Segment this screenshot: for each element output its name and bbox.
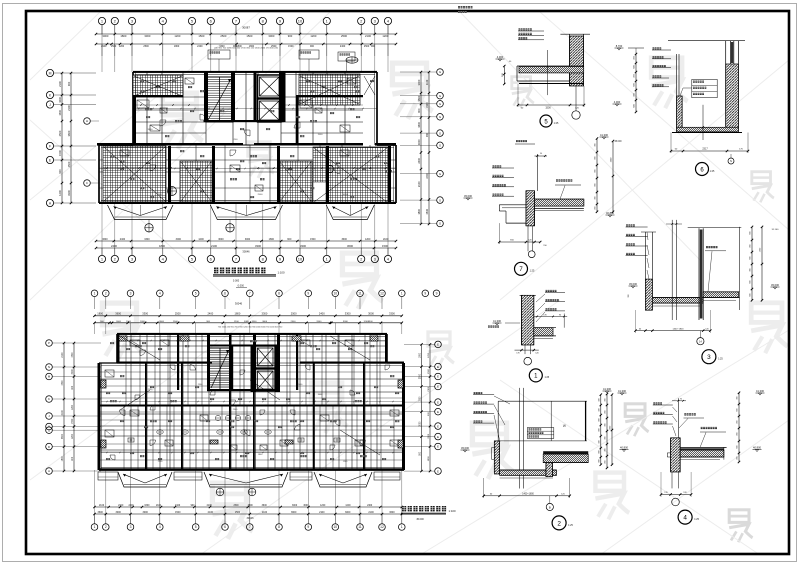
svg-text:1400~1800: 1400~1800: [672, 328, 684, 330]
bottom plan extra partitions: [123, 406, 125, 470]
bottom plan door arcs: [140, 350, 146, 356]
svg-text:300: 300: [598, 440, 600, 443]
top plan inner dim chains: [133, 108, 377, 110]
svg-text:3300: 3300: [345, 312, 351, 316]
svg-text:3600: 3600: [102, 238, 108, 241]
svg-text:2500: 2500: [175, 312, 181, 316]
roof vent: [346, 57, 358, 63]
svg-text:1800: 1800: [120, 34, 126, 38]
svg-text:E: E: [437, 365, 439, 369]
detail 6 annotation table: [692, 79, 717, 97]
svg-text:3000: 3000: [72, 368, 74, 374]
detail 3 bottom slab: [652, 298, 703, 304]
svg-text:5: 5: [195, 292, 197, 296]
bottom plan internal partitions horizontal: [117, 345, 387, 347]
top plan core poche: [254, 72, 257, 122]
detail 7 number circle: [515, 262, 528, 275]
svg-text:3600: 3600: [115, 312, 121, 316]
svg-text:240 900 700 2080 600 150 170: 240 900 700 2080 600 150 1700 350 120 15…: [214, 48, 279, 50]
bottom plan elevator shafts: [256, 346, 276, 368]
bottom plan left dim lines: [63, 343, 65, 471]
detail 7 level mark: [466, 198, 469, 200]
detail 2 bottom slab: [500, 470, 557, 475]
svg-text:31.100: 31.100: [772, 229, 779, 231]
svg-text:3600: 3600: [347, 244, 353, 248]
top plan stair core: [206, 77, 233, 122]
bottom plan window inner lines: [119, 335, 385, 337]
svg-text:1500: 1500: [288, 45, 294, 48]
svg-text:3600: 3600: [262, 321, 268, 323]
svg-text:10: 10: [298, 256, 303, 261]
svg-text:2400: 2400: [111, 244, 117, 248]
bottom plan dense labels: [106, 392, 108, 394]
svg-text:0.000: 0.000: [233, 280, 240, 283]
top plan door arcs: [160, 120, 166, 126]
svg-text:41.300: 41.300: [493, 319, 501, 323]
detail 5 group: [496, 28, 591, 127]
top plan internal partitions: [146, 72, 148, 145]
detail 5 vertical hatched wall: [570, 36, 584, 86]
svg-text:3000: 3000: [345, 511, 351, 514]
svg-text:3600: 3600: [97, 511, 103, 514]
svg-text:9: 9: [307, 292, 309, 296]
top plan dense labels: [140, 80, 142, 82]
svg-text:2100: 2100: [58, 81, 62, 87]
svg-text:7: 7: [249, 292, 251, 296]
detail 2 axis bubble: [546, 503, 553, 510]
top plan outer walls: [133, 71, 377, 73]
svg-text:3300: 3300: [389, 312, 395, 316]
svg-text:1400~1800: 1400~1800: [522, 494, 534, 496]
svg-text:2500: 2500: [233, 505, 239, 507]
detail 4 slab: [680, 446, 726, 448]
top plan right axis circles: [437, 69, 444, 76]
svg-text:40.800: 40.800: [606, 211, 614, 215]
top plan room labels: [145, 108, 147, 110]
top plan wall poche segments: [133, 95, 183, 97]
svg-text:4: 4: [683, 515, 687, 522]
svg-text:900: 900: [598, 459, 600, 462]
detail 6 bottom slab: [677, 127, 739, 132]
svg-text:30087: 30087: [242, 26, 250, 30]
svg-text:1:100: 1:100: [278, 271, 285, 275]
detail 7 slab leader: [556, 179, 558, 181]
svg-text:3000: 3000: [268, 34, 274, 38]
top plan left axis circles: [46, 69, 53, 76]
svg-text:E: E: [437, 385, 439, 389]
detail 4 pipe circle: [672, 498, 680, 506]
svg-text:1200: 1200: [320, 505, 326, 507]
svg-text:1200: 1200: [363, 321, 369, 323]
svg-text:2100: 2100: [262, 511, 268, 514]
detail 2 right dim col: [600, 395, 602, 465]
detail 6 window mullion: [729, 41, 731, 64]
svg-text:3300: 3300: [244, 321, 250, 323]
svg-text:2400: 2400: [367, 505, 373, 507]
detail 6 axis bubble: [728, 158, 734, 164]
svg-text:12: 12: [380, 525, 384, 529]
roof label boxes above plan: [208, 50, 230, 59]
svg-text:41.300: 41.300: [618, 389, 626, 393]
detail 7 right dim col: [596, 139, 598, 212]
svg-text:1200: 1200: [310, 34, 316, 38]
svg-text:3000: 3000: [417, 79, 421, 85]
svg-text:3000: 3000: [115, 511, 121, 514]
bottom plan room labels: [110, 400, 112, 402]
top plan drain symbols: [145, 224, 153, 232]
top plan center fixtures: [168, 187, 177, 196]
svg-text:45.000: 45.000: [464, 194, 472, 198]
svg-text:F: F: [49, 144, 51, 148]
svg-text:2500: 2500: [58, 130, 62, 136]
svg-text:9: 9: [424, 292, 426, 296]
svg-text:1500: 1500: [310, 238, 316, 241]
svg-text:10: 10: [298, 18, 303, 23]
svg-text:2500: 2500: [364, 45, 370, 48]
detail 1 vertical hatched wall: [522, 295, 534, 345]
svg-text:1200: 1200: [365, 238, 371, 241]
svg-text:40.800: 40.800: [620, 446, 628, 450]
svg-text:2400: 2400: [417, 157, 421, 163]
svg-text:2100: 2100: [118, 505, 124, 507]
bottom floor plan group: [46, 285, 456, 531]
svg-text:6: 6: [224, 292, 226, 296]
svg-text:2100: 2100: [211, 244, 217, 248]
svg-text:1500: 1500: [246, 34, 252, 38]
svg-text:4: 4: [159, 525, 161, 529]
bottom plan interior arrows: [120, 336, 160, 360]
svg-text:B: B: [549, 505, 551, 509]
svg-text:1:25: 1:25: [554, 122, 559, 125]
detail 2 level mark: [463, 450, 466, 452]
svg-text:2100: 2100: [365, 34, 371, 38]
svg-text:2: 2: [105, 525, 107, 529]
svg-text:2500: 2500: [341, 34, 347, 38]
detail 7 lower verticals: [527, 226, 529, 251]
svg-text:30046: 30046: [235, 302, 243, 306]
svg-text:2: 2: [557, 520, 561, 527]
svg-text:900: 900: [288, 34, 293, 38]
bottom plan bottom dim rows: [95, 506, 402, 508]
svg-text:3300: 3300: [262, 312, 268, 316]
detail 3 group: [626, 220, 780, 364]
svg-text:900: 900: [598, 428, 600, 431]
svg-text:3000: 3000: [417, 139, 421, 145]
svg-text:900: 900: [598, 418, 600, 421]
svg-text:1200: 1200: [233, 139, 239, 141]
detail 3 slab leader: [706, 246, 708, 248]
svg-text:1800: 1800: [97, 312, 103, 316]
svg-text:E: E: [437, 435, 439, 439]
svg-text:3300: 3300: [428, 433, 430, 439]
svg-text:3: 3: [130, 525, 132, 529]
top plan interior crosses: [104, 147, 165, 201]
svg-text:900: 900: [417, 108, 421, 113]
svg-text:2100: 2100: [156, 505, 162, 507]
svg-text:2500: 2500: [173, 321, 179, 323]
detail 4 group: [605, 389, 765, 524]
top plan extra labels: [140, 90, 142, 92]
svg-text:3000: 3000: [142, 511, 148, 514]
top plan axis circles top row: [98, 17, 105, 24]
svg-text:E: E: [437, 469, 439, 473]
detail 5 pipe circle: [572, 111, 580, 119]
svg-text:1200: 1200: [428, 352, 430, 358]
svg-text:3600: 3600: [291, 511, 297, 514]
svg-text:4: 4: [159, 292, 161, 296]
detail 4 central pipe: [677, 398, 679, 438]
svg-text:1:25: 1:25: [710, 170, 715, 173]
top plan left dim lines: [61, 73, 63, 203]
svg-text:E: E: [437, 445, 439, 449]
svg-text:3300: 3300: [142, 312, 148, 316]
svg-text:3000: 3000: [245, 238, 251, 241]
svg-text:8: 8: [278, 525, 280, 529]
bottom plan axis circles top row: [91, 290, 98, 297]
svg-text:3300: 3300: [252, 321, 258, 323]
detail 2 leader annotations left: [474, 392, 476, 394]
svg-text:H: H: [86, 119, 88, 123]
svg-text:1500: 1500: [62, 380, 64, 386]
detail 5 floor slab: [519, 67, 584, 73]
svg-text:8: 8: [278, 292, 280, 296]
svg-text:6: 6: [224, 525, 226, 529]
svg-text:3000: 3000: [292, 505, 298, 507]
detail 7 pipe circle: [528, 251, 535, 258]
bottom plan left axis circles: [46, 340, 53, 347]
svg-text:2500: 2500: [426, 208, 429, 214]
detail 6 number circle: [696, 163, 709, 176]
svg-text:3000: 3000: [303, 505, 309, 507]
svg-text:2400: 2400: [340, 45, 346, 48]
top floor plan group: [46, 17, 443, 282]
bottom plan axis guide lines: [94, 323, 96, 334]
svg-text:41.300: 41.300: [603, 387, 611, 391]
svg-text:K: K: [48, 397, 50, 401]
svg-text:3600: 3600: [389, 511, 395, 514]
svg-text:40.800: 40.800: [753, 446, 761, 450]
svg-text:3000: 3000: [116, 321, 122, 323]
svg-text:1200: 1200: [72, 404, 74, 410]
top plan interior dims: [133, 104, 206, 106]
svg-text:2100: 2100: [426, 79, 429, 85]
svg-text:41.300: 41.300: [756, 389, 764, 393]
svg-text:1200: 1200: [174, 34, 180, 38]
svg-text:N: N: [48, 365, 50, 369]
detail 7 group: [464, 133, 615, 275]
svg-text:300: 300: [598, 408, 600, 411]
detail 3 axis bubble: [697, 338, 704, 345]
misc top-right corner text: [458, 6, 460, 8]
svg-text:10: 10: [333, 525, 337, 529]
svg-text:2100: 2100: [175, 505, 181, 507]
bottom plan core poche: [251, 346, 254, 392]
top plan window inner lines: [135, 74, 375, 76]
svg-text:8.700: 8.700: [616, 44, 623, 48]
bottom plan drain symbols: [216, 488, 224, 496]
detail 6 center pipe: [702, 105, 704, 140]
svg-text:300: 300: [598, 398, 600, 401]
detail 3 leader annotations: [626, 224, 628, 226]
detail 2 bottom dim: [484, 495, 570, 497]
detail 3 left level marks: [631, 286, 634, 288]
svg-text:1:25: 1:25: [530, 270, 535, 273]
detail 6 bottom dim: [671, 150, 748, 152]
svg-text:3300: 3300: [368, 321, 374, 323]
svg-text:1:25: 1:25: [544, 376, 549, 379]
detail 4 left dim col: [606, 394, 608, 468]
svg-text:1200: 1200: [119, 45, 125, 48]
svg-text:3300: 3300: [255, 244, 261, 248]
svg-text:45.000: 45.000: [461, 446, 469, 450]
bottom plan mid fixtures row: [215, 415, 220, 420]
svg-text:90: 90: [680, 399, 682, 401]
detail 4 bottom dim: [661, 494, 691, 496]
svg-text:E: E: [437, 343, 439, 347]
svg-text:2317: 2317: [702, 148, 708, 151]
svg-text:2500: 2500: [291, 312, 297, 316]
detail 7 left parapet: [499, 204, 526, 206]
detail 6 right hatched wall: [726, 64, 739, 127]
detail 2 right floor slab: [543, 452, 588, 455]
svg-text:1:25: 1:25: [694, 518, 699, 521]
top plan balconies below: [108, 205, 174, 220]
svg-text:E: E: [437, 424, 439, 428]
svg-text:E: E: [437, 400, 439, 404]
svg-text:9: 9: [436, 292, 438, 296]
svg-text:2100: 2100: [67, 105, 71, 111]
svg-text:45.000: 45.000: [771, 283, 779, 287]
bottom plan inner dim chains: [101, 401, 402, 403]
svg-text:1500: 1500: [318, 134, 324, 136]
detail 7 pipe above: [536, 154, 538, 191]
detail 7 leader annotations: [493, 165, 495, 167]
svg-text:11: 11: [358, 525, 362, 529]
bottom plan outer walls: [117, 333, 387, 335]
detail 5 bottom dim: [518, 104, 584, 106]
svg-text:2400: 2400: [319, 312, 325, 316]
svg-text:2100: 2100: [207, 505, 213, 507]
svg-text:2100: 2100: [208, 511, 214, 514]
detail 1 group: [488, 290, 567, 382]
bottom plan clutter fixtures: [105, 370, 114, 377]
svg-text:7: 7: [249, 525, 251, 529]
svg-text:1500: 1500: [72, 352, 74, 358]
svg-text:30046: 30046: [247, 517, 255, 520]
svg-text:3000: 3000: [419, 421, 421, 427]
detail 1 small dim bracket: [534, 316, 567, 318]
bottom plan door arcs extra: [135, 395, 140, 400]
detail 6 group: [613, 41, 750, 176]
svg-text:3300: 3300: [316, 321, 322, 323]
svg-text:2100: 2100: [62, 409, 64, 415]
svg-text:1500: 1500: [545, 106, 551, 109]
svg-text:3300: 3300: [300, 244, 306, 248]
svg-text:1800: 1800: [417, 208, 421, 214]
svg-text:1500: 1500: [58, 109, 62, 115]
svg-text:750 1600 240 900 700 1900 1200: 750 1600 240 900 700 1900 1200 350 900 2…: [218, 327, 283, 329]
svg-text:4.000: 4.000: [614, 100, 621, 104]
svg-text:45.000: 45.000: [614, 141, 622, 143]
svg-text:2100: 2100: [368, 511, 374, 514]
detail 6 top cap line: [668, 40, 745, 42]
svg-text:2100: 2100: [319, 511, 325, 514]
top plan axis circles bottom row: [98, 255, 105, 262]
svg-text:10: 10: [333, 292, 337, 296]
svg-text:1: 1: [94, 292, 96, 296]
detail 5 leader annotations: [519, 28, 521, 30]
svg-text:3300: 3300: [144, 34, 150, 38]
detail 3 top cap: [688, 227, 742, 229]
svg-text:3: 3: [130, 292, 132, 296]
detail 1 slab: [534, 328, 553, 336]
detail 2 top cap: [498, 400, 587, 402]
svg-text:W: W: [563, 424, 566, 428]
svg-text:2400: 2400: [120, 238, 126, 241]
svg-text:1:25: 1:25: [718, 358, 723, 361]
svg-text:5: 5: [195, 525, 197, 529]
svg-text:2500: 2500: [258, 194, 264, 196]
detail 3 dark mullion: [698, 228, 700, 320]
svg-text:3600: 3600: [248, 505, 254, 507]
detail 3 center pipes: [671, 220, 673, 320]
svg-text:1500: 1500: [382, 244, 388, 248]
svg-text:1500: 1500: [419, 396, 421, 402]
svg-text:900: 900: [287, 238, 292, 241]
svg-text:3600: 3600: [67, 130, 71, 136]
svg-text:3300: 3300: [144, 238, 150, 241]
svg-text:1500: 1500: [426, 102, 429, 108]
svg-text:3: 3: [707, 354, 711, 361]
bottom plan stair core: [209, 348, 231, 390]
svg-text:900: 900: [598, 450, 600, 453]
svg-text:1800: 1800: [174, 45, 180, 48]
bottom plan axis circles bottom row: [91, 524, 98, 531]
svg-text:1200: 1200: [72, 433, 74, 439]
svg-text:1: 1: [401, 525, 403, 529]
svg-text:3300: 3300: [148, 129, 154, 131]
svg-text:45.000: 45.000: [629, 282, 637, 286]
svg-text:900: 900: [67, 81, 71, 86]
svg-text:2100: 2100: [428, 386, 430, 392]
svg-text:E: E: [437, 375, 439, 379]
detail 2 tall pipe lines: [518, 388, 520, 489]
svg-text:1500: 1500: [126, 321, 132, 323]
svg-text:30046: 30046: [242, 250, 250, 254]
detail 7 right slab: [535, 199, 584, 206]
top plan elevator shafts: [258, 75, 282, 98]
svg-text:1800: 1800: [235, 312, 241, 316]
bottom plan top dimension rows: [95, 315, 402, 317]
svg-text:N: N: [730, 159, 732, 163]
svg-text:3600: 3600: [341, 238, 347, 241]
svg-text:P: P: [48, 341, 50, 345]
svg-text:900: 900: [310, 45, 315, 48]
detail 3 number circle: [702, 350, 716, 364]
detail 2 annotation table: [527, 428, 554, 439]
svg-text:E: E: [437, 410, 439, 414]
bottom plan right dim lines: [421, 344, 423, 471]
detail 3 left wall: [641, 231, 656, 233]
top plan axis guide lines: [101, 25, 103, 72]
detail 5 number circle: [540, 115, 552, 127]
svg-text:2100: 2100: [383, 238, 389, 241]
svg-text:1500: 1500: [198, 34, 204, 38]
top plan title: [214, 268, 218, 274]
detail 6 left dim column: [635, 54, 637, 112]
svg-text:11: 11: [358, 292, 362, 296]
svg-text:3600: 3600: [159, 321, 165, 323]
